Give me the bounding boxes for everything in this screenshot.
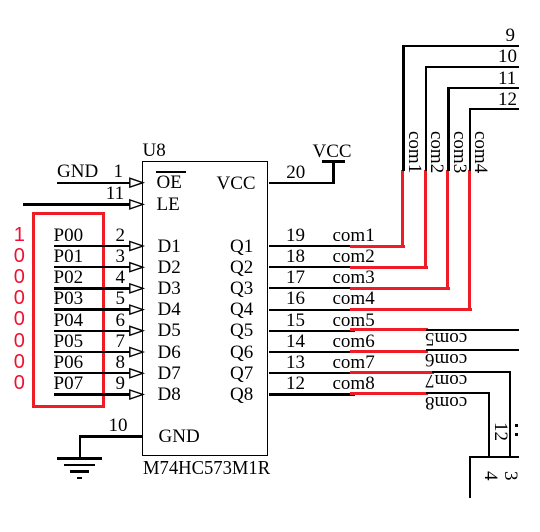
pin name Q5 (230, 321, 253, 340)
pin name D8 (158, 385, 181, 404)
pin number 7 (116, 332, 126, 351)
pin number 13 (286, 353, 305, 372)
wire pin 13 (269, 372, 356, 374)
rotated net label com6 (180deg) (425, 350, 467, 369)
wire P02 to pin 4 (54, 287, 134, 289)
wire pin 18 (269, 266, 356, 268)
header pin number 11 (498, 69, 516, 88)
net label com7 (333, 353, 375, 372)
wire pin 11 LE (23, 203, 133, 205)
rotated wire label 11 stub a (515, 424, 519, 427)
red bit value 0 for P03 (14, 288, 25, 308)
wire com2 top horizontal to pin 10 (425, 66, 519, 68)
red bit value 0 for P07 (14, 373, 25, 393)
red wire com3 horizontal (350, 287, 451, 290)
pin number 6 (116, 311, 126, 330)
connector rotated pin number 3 (501, 471, 520, 481)
red wire com4 horizontal (350, 308, 472, 311)
pin name D2 (158, 258, 181, 277)
pin number 2 (116, 226, 126, 245)
wire P05 to pin 7 (54, 351, 134, 353)
red wire com7 horizontal (350, 371, 434, 374)
header pin number 9 (506, 26, 516, 45)
header pin number 10 (498, 47, 517, 66)
pin name Q7 (230, 364, 253, 383)
rotated net label com2 (427, 131, 446, 173)
rotated net label com4 (471, 131, 490, 173)
rotated net label com1 (405, 131, 424, 173)
pin number 17 (286, 268, 305, 287)
pin number 8 (116, 353, 126, 372)
red highlight box around P00-P07 (32, 212, 106, 408)
pin name Q8 (230, 385, 253, 404)
power symbol VCC label (313, 142, 352, 161)
pin number 14 (286, 332, 305, 351)
wire com1 top horizontal to pin 9 (402, 45, 519, 47)
red wire com2 horizontal (350, 266, 428, 269)
pin number 15 (286, 311, 305, 330)
ground bar 3 (70, 470, 90, 473)
pin name OE (157, 173, 182, 192)
ground stem (79, 437, 82, 459)
red wire com5 horizontal (350, 328, 428, 331)
pin number 19 (286, 226, 305, 245)
red bit value 0 for P01 (14, 246, 25, 266)
net label GND on pin 1 (57, 162, 98, 181)
pin number 5 (116, 289, 126, 308)
pin name GND inside box (159, 427, 200, 446)
pin number 10 (109, 416, 128, 435)
red wire com1 horizontal (350, 245, 406, 248)
pin name Q4 (230, 300, 253, 319)
wire pin 16 (269, 309, 356, 311)
pin number 20 (286, 163, 305, 182)
pin name D3 (158, 279, 181, 298)
pin name LE (157, 195, 180, 214)
net label P06 (54, 353, 84, 372)
pin number 9 (116, 374, 126, 393)
pin number 3 (116, 247, 126, 266)
wire com3 top horizontal to pin 11 (447, 87, 519, 89)
power symbol VCC stem (332, 161, 335, 184)
red bit value 0 for P04 (14, 309, 25, 329)
red bit value 0 for P02 (14, 267, 25, 287)
IC U8 body M74HC573 latch (142, 161, 268, 457)
rotated wire label 12 (491, 422, 510, 441)
pin name Q1 (230, 237, 253, 256)
red wire com4 vertical (468, 170, 471, 312)
wire com3 vertical drop (447, 87, 449, 171)
pin name D7 (158, 364, 181, 383)
net label com1 (333, 226, 375, 245)
wire pin 19 (269, 245, 356, 247)
wire com4 vertical drop (469, 108, 471, 171)
ground bar 1 (57, 457, 102, 460)
wire P00 to pin 2 (54, 245, 134, 247)
red wire com2 vertical (424, 170, 427, 269)
net label P00 (54, 226, 84, 245)
pin name Q6 (230, 343, 253, 362)
IC U8 designator label (143, 141, 166, 160)
net label com2 (333, 247, 375, 266)
power symbol VCC bar (322, 160, 346, 163)
red wire com8 horizontal (350, 392, 428, 395)
ground bar 4 (77, 477, 83, 479)
pin name VCC inside box (217, 174, 256, 193)
wire com4 top horizontal to pin 12 (469, 108, 519, 110)
wire pin 10 GND (79, 435, 143, 437)
wire com8 vertical drop to connector pin 4 (488, 392, 491, 458)
pin name D1 (158, 237, 181, 256)
pin name Q2 (230, 258, 253, 277)
net label com5 (333, 311, 375, 330)
pin number 4 (116, 268, 126, 287)
red bit value 0 for P06 (14, 352, 25, 372)
connector body left edge (469, 457, 471, 498)
wire com7 vertical drop to connector pin 3 (509, 371, 512, 458)
pin number 16 (286, 289, 305, 308)
wire com5 continuation (426, 329, 519, 331)
wire pin 20 VCC (269, 182, 336, 185)
wire com8 continuation (426, 392, 490, 394)
red bit value 1 for P00 (14, 225, 25, 245)
wire pin 17 (269, 287, 356, 289)
IC U8 part value label M74HC573M1R (143, 459, 270, 478)
red wire com1 vertical (401, 170, 404, 248)
wire P04 to pin 6 (54, 330, 134, 332)
net label P07 (54, 374, 84, 393)
red wire com3 vertical (446, 170, 449, 290)
connector rotated pin number 4 (481, 471, 500, 481)
net label P03 (54, 289, 84, 308)
wire pin 14 (269, 351, 356, 353)
pin number 12 (286, 374, 305, 393)
wire com7 continuation (432, 371, 511, 373)
rotated wire label 11 stub b (515, 433, 519, 436)
net label P02 (54, 268, 84, 287)
wire pin 15 (269, 330, 356, 332)
pin name OE overline (156, 171, 186, 173)
pin number 11 (106, 184, 124, 203)
rotated net label com8 (180deg) (425, 393, 467, 412)
pin name D5 (158, 321, 181, 340)
wire P03 to pin 5 (54, 308, 134, 310)
rotated net label com5 (180deg) (425, 329, 467, 348)
net label com4 (333, 289, 375, 308)
pin number 1 (114, 162, 124, 181)
wire P07 to pin 9 (54, 393, 134, 395)
net label com8 (333, 374, 375, 393)
rotated net label com7 (180deg) (425, 371, 467, 390)
pin number 18 (286, 247, 305, 266)
net label com6 (333, 332, 375, 351)
net label P04 (54, 311, 84, 330)
pin name Q3 (230, 279, 253, 298)
wire com2 vertical drop (425, 66, 427, 171)
header pin number 12 (498, 90, 517, 109)
wire pin 12 (269, 393, 356, 395)
rotated net label com3 (450, 131, 469, 173)
wire com6 continuation (426, 349, 519, 351)
pin name D4 (158, 300, 181, 319)
red bit value 0 for P05 (14, 331, 25, 351)
red wire com6 horizontal (350, 350, 428, 353)
wire P01 to pin 3 (54, 266, 134, 268)
wire pin 1 OE (57, 182, 133, 184)
net label com3 (333, 268, 375, 287)
net label P05 (54, 332, 84, 351)
connector body top edge (469, 456, 519, 458)
net label P01 (54, 247, 84, 266)
wire com1 vertical drop (402, 45, 404, 171)
wire P06 to pin 8 (54, 372, 134, 374)
ground bar 2 (64, 464, 96, 467)
pin name D6 (158, 343, 181, 362)
